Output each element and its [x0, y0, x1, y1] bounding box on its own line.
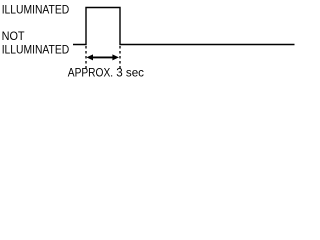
wire duration arrow shaft — [92, 56, 114, 58]
node left arrowhead — [87, 54, 94, 60]
svg-text:APPROX.: APPROX. — [68, 66, 113, 79]
node right arrowhead — [112, 54, 119, 60]
svg-text:ILLUMINATED: ILLUMINATED — [2, 2, 70, 16]
node rising-edge dashed reference line — [85, 46, 87, 69]
node falling-edge dashed reference line — [119, 46, 121, 69]
svg-text:NOT: NOT — [2, 29, 26, 43]
svg-text:3 sec: 3 sec — [116, 66, 144, 79]
svg-text:ILLUMINATED: ILLUMINATED — [2, 42, 70, 56]
wire signal waveform pulse — [73, 8, 295, 45]
